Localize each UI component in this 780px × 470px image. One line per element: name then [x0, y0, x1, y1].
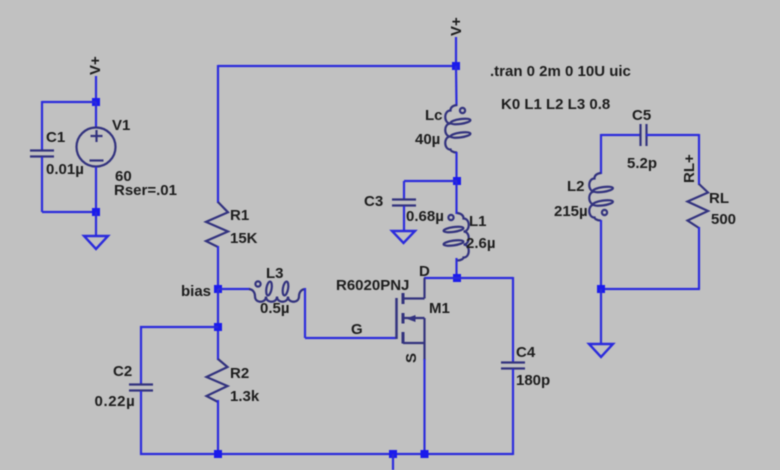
svg-text:180p: 180p — [516, 372, 550, 389]
wire — [403, 206, 405, 231]
wire — [423, 359, 425, 454]
svg-text:15K: 15K — [230, 230, 258, 247]
node junction source column — [421, 450, 429, 458]
wire — [601, 134, 640, 136]
wire — [646, 134, 699, 136]
transistor M1 — [397, 278, 425, 360]
wire — [601, 288, 700, 290]
wire — [600, 134, 602, 174]
svg-text:K0 L1 L2 L3 0.8: K0 L1 L2 L3 0.8 — [501, 96, 610, 113]
inductor L2 — [589, 173, 613, 221]
wire — [140, 391, 142, 455]
svg-text:0.68µ: 0.68µ — [406, 208, 444, 225]
inductor Lc — [445, 105, 470, 153]
ground — [84, 236, 108, 249]
wire — [455, 66, 458, 106]
node junction top rail — [452, 62, 460, 70]
node junction bias/C2 — [214, 323, 222, 331]
wire — [512, 277, 514, 362]
node junction Lc/C3/L1 — [453, 177, 461, 185]
wire — [41, 101, 43, 150]
wire — [41, 157, 43, 212]
wire — [42, 211, 96, 213]
svg-text:RL+: RL+ — [681, 154, 698, 183]
wire bottom rail — [140, 453, 513, 455]
svg-text:G: G — [351, 321, 363, 338]
svg-text:R1: R1 — [230, 207, 249, 224]
node junction L2/RL ground — [597, 285, 605, 293]
node junction bottom R2 — [214, 450, 222, 458]
svg-text:C1: C1 — [46, 129, 65, 146]
wire — [304, 288, 306, 338]
svg-text:V+: V+ — [87, 56, 104, 75]
ground — [589, 344, 613, 357]
wire — [404, 180, 457, 182]
wire — [218, 288, 250, 290]
wire — [95, 212, 97, 236]
wire — [698, 227, 700, 289]
svg-text:L1: L1 — [469, 213, 487, 230]
wire — [217, 400, 219, 454]
svg-text:V+: V+ — [448, 17, 465, 36]
node junction top of V1 — [92, 98, 100, 106]
svg-text:R6020PNJ: R6020PNJ — [336, 277, 409, 294]
svg-text:C4: C4 — [516, 344, 536, 361]
wire — [455, 258, 457, 278]
svg-text:1.3k: 1.3k — [230, 388, 260, 405]
inductor L3 — [249, 281, 305, 302]
wire — [698, 134, 700, 185]
wire — [140, 326, 218, 328]
wire — [455, 181, 457, 214]
wire — [455, 152, 457, 181]
svg-text:C2: C2 — [113, 363, 132, 380]
svg-text:S: S — [403, 353, 420, 363]
capacitor C3 — [392, 200, 416, 206]
svg-text:C3: C3 — [364, 193, 383, 210]
svg-text:C5: C5 — [632, 107, 651, 124]
wire — [95, 76, 97, 102]
wire — [217, 246, 219, 290]
node bias — [214, 285, 222, 293]
inductor L1 — [443, 213, 468, 261]
capacitor C1 — [30, 151, 54, 157]
svg-text:40µ: 40µ — [415, 131, 440, 148]
svg-text:V1: V1 — [112, 117, 130, 134]
capacitor C2 — [129, 385, 153, 391]
svg-text:500: 500 — [711, 211, 736, 228]
svg-text:L2: L2 — [567, 178, 585, 195]
wire — [140, 326, 142, 384]
svg-text:2.6µ: 2.6µ — [466, 235, 496, 252]
svg-text:.tran 0 2m 0 10U uic: .tran 0 2m 0 10U uic — [490, 63, 631, 80]
wire — [42, 101, 96, 103]
svg-text:R2: R2 — [230, 365, 249, 382]
wire — [455, 37, 457, 66]
node junction drain rail — [453, 274, 461, 282]
svg-text:0.01µ: 0.01µ — [46, 161, 84, 178]
svg-text:RL: RL — [709, 190, 729, 207]
svg-text:Lc: Lc — [425, 107, 443, 124]
wire gate — [305, 337, 396, 339]
wire — [95, 167, 97, 212]
wire drain rail — [424, 277, 513, 279]
svg-text:L3: L3 — [266, 265, 284, 282]
node junction bottom stub — [389, 450, 397, 458]
svg-text:D: D — [419, 263, 430, 280]
voltage source V1 — [77, 128, 116, 167]
wire — [217, 289, 219, 360]
resistor R2 — [207, 359, 228, 402]
wire — [95, 102, 97, 127]
wire top rail — [218, 65, 456, 67]
capacitor C4 — [501, 363, 525, 369]
resistor RL — [688, 184, 709, 228]
wire — [600, 289, 602, 344]
svg-text:0.22µ: 0.22µ — [95, 393, 136, 410]
svg-text:215µ: 215µ — [554, 203, 588, 220]
capacitor C5 — [641, 124, 647, 146]
wire — [512, 369, 514, 455]
svg-text:bias: bias — [181, 283, 211, 300]
wire — [403, 181, 405, 199]
svg-text:M1: M1 — [429, 300, 450, 317]
wire — [600, 220, 602, 289]
svg-text:0.5µ: 0.5µ — [260, 300, 290, 317]
wire — [217, 65, 219, 203]
svg-text:Rser=.01: Rser=.01 — [114, 182, 177, 199]
node junction bottom of V1 — [92, 208, 100, 216]
svg-text:5.2p: 5.2p — [627, 155, 657, 172]
resistor R1 — [206, 202, 228, 247]
ground — [392, 231, 415, 243]
wire stub down — [392, 454, 394, 470]
